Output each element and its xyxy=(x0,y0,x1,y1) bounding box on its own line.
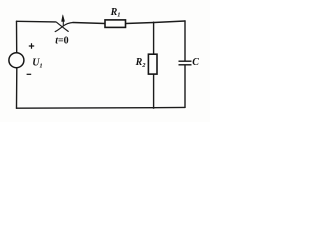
switch arrow head xyxy=(62,15,65,22)
resistor R2 xyxy=(148,54,157,74)
source minus sign xyxy=(27,73,32,75)
wire bottom xyxy=(17,106,186,109)
switch S blade open xyxy=(56,22,68,31)
wire R2 branch upper xyxy=(153,23,155,55)
wire left upper xyxy=(16,21,18,52)
switch S blade arc xyxy=(55,23,73,32)
svg-text:C: C xyxy=(192,57,199,68)
wire R1 to top-right corner xyxy=(126,21,186,24)
capacitor C top plate xyxy=(179,60,192,62)
resistor R1 xyxy=(105,20,126,28)
wire R2 branch lower xyxy=(153,74,155,108)
switch arrow shaft xyxy=(62,20,64,26)
capacitor C bottom plate xyxy=(179,64,192,66)
wire switch to R1 xyxy=(73,23,105,24)
source plus sign xyxy=(29,43,34,48)
wire top-left xyxy=(17,20,56,23)
junction dot bottom xyxy=(153,107,155,109)
svg-text:t=0: t=0 xyxy=(55,36,68,47)
wire right side lower xyxy=(184,65,186,107)
voltage source U1 circle xyxy=(9,53,24,68)
junction dot top xyxy=(153,22,155,24)
wire left lower xyxy=(16,68,18,108)
wire right side upper xyxy=(184,21,186,61)
